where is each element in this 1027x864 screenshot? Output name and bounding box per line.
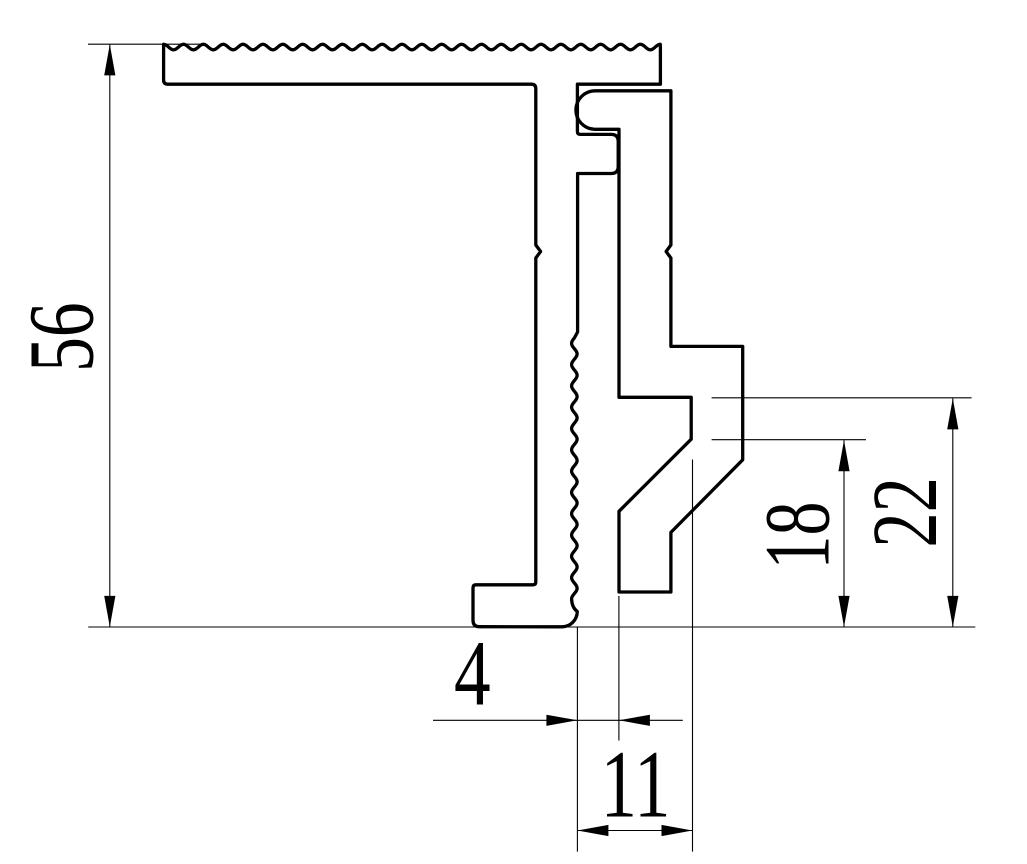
svg-text:18: 18 (745, 502, 849, 570)
extension line top for 18 (712, 439, 866, 441)
baseline ground line (88, 626, 975, 628)
dimension line 22 (952, 398, 954, 627)
extension line top for 22 (712, 397, 972, 399)
dimension line 4 left tail (433, 719, 683, 721)
profile main body outline (flange + web + foot) (164, 44, 661, 627)
extension line right for 4 (618, 596, 620, 741)
svg-text:22: 22 (853, 477, 957, 547)
profile right leg outline (576, 91, 743, 592)
svg-text:11: 11 (601, 732, 671, 838)
svg-text:4: 4 (454, 623, 491, 726)
extension line left for 4 (576, 628, 578, 852)
extension line top for 56 (88, 43, 206, 45)
svg-text:56: 56 (10, 302, 113, 372)
dimension line 11 (577, 830, 692, 832)
dimension line 18 (843, 440, 845, 627)
dimension line 56 (109, 45, 111, 627)
extension line right for 11 (692, 460, 694, 852)
